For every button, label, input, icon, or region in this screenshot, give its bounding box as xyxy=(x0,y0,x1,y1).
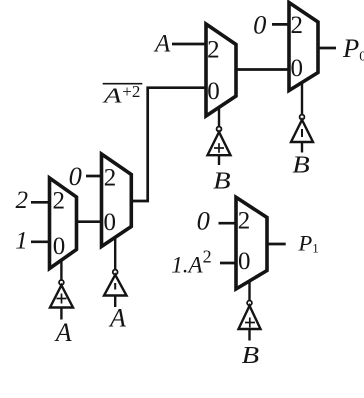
mux M1 (top middle) xyxy=(206,24,236,116)
mux M5 (bottom right) xyxy=(236,197,267,289)
wire mux M5 output P1 xyxy=(267,243,286,246)
svg-text:2: 2 xyxy=(238,208,251,235)
wire below triangle to B xyxy=(218,155,220,165)
select buffer triangle B (under M5) xyxy=(239,306,261,329)
svg-text:0: 0 xyxy=(238,248,251,275)
svg-text:B: B xyxy=(242,343,260,369)
bubble on select of M5 xyxy=(247,301,252,306)
select buffer triangle A (under M3) xyxy=(50,285,73,307)
wire mux M1 output to mux M2 input 0 xyxy=(235,68,290,71)
wire input 0 to mux M2 xyxy=(272,23,290,26)
mux M3 (bottom left first) xyxy=(50,178,77,269)
wire mux M4 output up to mux M1 input 0 xyxy=(132,88,206,201)
wire below triangle to A xyxy=(114,296,116,308)
wire mux M2 output P0 xyxy=(318,47,336,50)
svg-text:0: 0 xyxy=(253,9,266,39)
svg-text:B: B xyxy=(292,152,310,178)
wire mux M3 output to mux M4 input 0 xyxy=(76,220,102,223)
svg-text:A: A xyxy=(101,83,122,107)
wire below triangle to B xyxy=(248,329,250,341)
wire input 1.A^2 to mux M5 xyxy=(220,262,237,265)
bubble on select of M1 xyxy=(217,127,222,132)
wire input 2 to mux M3 xyxy=(31,201,50,204)
wire below triangle to A xyxy=(60,308,62,320)
svg-text:A: A xyxy=(108,304,126,333)
svg-text:0: 0 xyxy=(53,233,66,260)
svg-text:2: 2 xyxy=(104,164,117,191)
select buffer triangle B-bar (under M2) xyxy=(291,120,313,142)
svg-text:0: 0 xyxy=(207,78,220,105)
svg-text:0: 0 xyxy=(197,205,210,235)
wire below triangle to B xyxy=(301,142,303,153)
svg-text:2: 2 xyxy=(15,187,28,214)
svg-text:A: A xyxy=(153,31,171,58)
svg-text:0: 0 xyxy=(103,209,116,236)
wire select of mux M3 xyxy=(60,260,62,281)
svg-text:1: 1 xyxy=(15,228,28,255)
mux M2 (top right) xyxy=(289,3,318,91)
select buffer triangle B (under M1) xyxy=(208,132,231,155)
svg-text:0: 0 xyxy=(69,161,82,191)
node A+2-bar label xyxy=(101,82,142,107)
svg-text:A: A xyxy=(54,318,72,347)
wire select of mux M1 xyxy=(218,108,220,127)
svg-text:2: 2 xyxy=(207,36,220,63)
wire input A to mux M1 xyxy=(172,43,207,46)
svg-text:2: 2 xyxy=(291,12,304,39)
svg-text:2: 2 xyxy=(52,188,65,215)
bubble on select of M2 xyxy=(300,115,305,120)
svg-text:+2: +2 xyxy=(122,82,140,101)
wire input 0 to mux M4 xyxy=(86,175,102,178)
bubble on select of M4 xyxy=(113,270,118,275)
wire input 1 to mux M3 xyxy=(31,240,50,243)
wire select of mux M4 xyxy=(114,237,116,270)
svg-text:0: 0 xyxy=(291,55,304,82)
wire input 0 to mux M5 xyxy=(219,222,238,225)
mux M4 (bottom left second) xyxy=(102,154,132,247)
select buffer triangle A-bar (under M4) xyxy=(104,275,127,296)
svg-text:B: B xyxy=(213,169,231,195)
wire select of mux M5 xyxy=(248,280,250,300)
bubble on select of M3 xyxy=(59,280,64,285)
wire select of mux M2 xyxy=(301,82,303,115)
